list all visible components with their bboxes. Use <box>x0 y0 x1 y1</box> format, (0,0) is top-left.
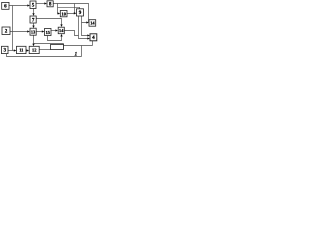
wire 15 under-loop up into 14mid bottom <box>48 35 62 40</box>
block 8 <box>47 1 53 7</box>
wire 13 down to 12 <box>33 35 35 45</box>
svg-text:9: 9 <box>79 10 82 16</box>
wire 10 output to 9 <box>67 4 75 14</box>
block 13 <box>30 28 36 35</box>
svg-text:4: 4 <box>92 35 95 41</box>
wire 9 bottom to 14R branch and to 4 upper input <box>82 16 89 36</box>
arrowhead into 11 <box>14 49 17 51</box>
arrowhead into 14R <box>86 21 89 23</box>
wire vertical feed from 6-line down to 3-11 line <box>12 6 14 51</box>
arrowhead into 4 lower <box>87 37 90 39</box>
wire 6 to 5 <box>9 5 28 7</box>
svg-text:11: 11 <box>19 48 23 53</box>
wire 9 bottom second rail to 4 lower input <box>79 16 89 39</box>
wire 12 to bus box <box>39 49 51 51</box>
wire mid rail from branch to 9 top <box>58 7 80 9</box>
block 9 <box>77 9 84 16</box>
block 10 <box>60 11 67 17</box>
arrowhead into 14mid bottom (up) <box>60 34 62 37</box>
wire 15 to 14mid <box>51 30 56 32</box>
block 3 <box>2 46 9 53</box>
block 14 middle <box>58 27 64 34</box>
block 15 <box>45 29 52 36</box>
wire 3 to 11 <box>8 50 15 52</box>
wire 3 bottom feed along bottom rail up to y45.5 rail <box>7 46 82 57</box>
wire branch down into 10 <box>57 4 60 14</box>
arrowhead into 4 upper <box>87 34 90 36</box>
wire 7 down to 13 <box>33 23 35 27</box>
arrowhead into 12 left <box>27 49 30 51</box>
svg-text:6: 6 <box>4 4 7 10</box>
svg-text:12: 12 <box>32 48 36 53</box>
svg-text:5: 5 <box>32 3 35 9</box>
block 14 right <box>89 20 96 27</box>
arrowhead into 7 (down) <box>32 13 34 16</box>
arrowhead into 14mid left <box>55 29 58 31</box>
wire 7 output to 14mid top <box>36 19 61 25</box>
arrowhead into 5 <box>27 4 30 6</box>
wire 13 to 15 <box>36 31 43 33</box>
wire 11 to 12 <box>26 50 28 52</box>
wire 2 to 13 <box>10 31 28 33</box>
arrowhead into 13 top (down) <box>32 26 34 29</box>
block 11 <box>17 46 27 53</box>
block 12 <box>29 46 39 53</box>
arrowhead into 14mid top (down) <box>60 24 62 27</box>
arrowhead into 8 <box>44 2 47 4</box>
wire 8 output top rail across to x88.5 then down to 14R <box>53 4 88 23</box>
wire 5 to 8 <box>36 3 45 5</box>
block 5 <box>30 1 36 9</box>
svg-text:1: 1 <box>74 51 77 57</box>
block 7 <box>30 16 36 23</box>
wire 5 down to 7 <box>33 9 35 15</box>
arrowhead into 10 <box>58 12 61 14</box>
arrowhead into 15 <box>42 30 45 32</box>
wire rail from 13-12 vertical through jog to 4 bottom <box>34 41 93 50</box>
bus box unlabeled <box>51 45 64 50</box>
block 4 output (bold) <box>90 34 97 41</box>
arrowhead into 12 top (down) <box>32 44 34 47</box>
block 6 <box>2 2 9 9</box>
arrowhead into 13 left <box>27 30 30 32</box>
svg-text:3: 3 <box>4 48 7 54</box>
arrowhead into 9 <box>74 12 77 14</box>
wire 14mid output joining lower rail <box>64 31 78 36</box>
block 2 <box>2 27 10 35</box>
svg-text:2: 2 <box>5 29 8 35</box>
